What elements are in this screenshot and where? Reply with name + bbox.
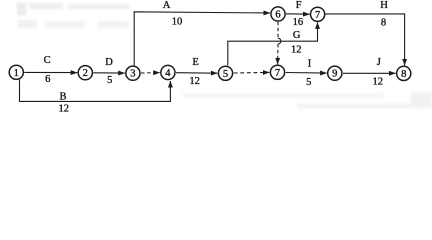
hop of dummy over G line — [278, 38, 281, 44]
svg-text:6: 6 — [45, 74, 50, 85]
wire activity F (6->7 top) — [286, 13, 310, 15]
node 9 — [328, 66, 342, 80]
wire dummy (3->4) dashed — [141, 72, 160, 74]
svg-text:2: 2 — [83, 68, 88, 79]
svg-text:7: 7 — [315, 10, 320, 21]
svg-text:4: 4 — [165, 68, 171, 79]
svg-text:9: 9 — [332, 69, 337, 80]
svg-text:H: H — [380, 0, 388, 11]
svg-text:12: 12 — [189, 76, 200, 87]
wire dummy (6->7 bottom) dashed lower part — [277, 44, 279, 64]
node 3 — [126, 66, 140, 80]
svg-text:F: F — [296, 0, 302, 11]
wire activity J (9->8) — [343, 72, 396, 74]
svg-text:G: G — [293, 30, 301, 41]
svg-text:D: D — [105, 57, 113, 68]
svg-text:C: C — [44, 55, 51, 66]
node 8 — [397, 66, 411, 80]
node 6 — [271, 7, 285, 21]
wire activity H (7 top ->8) — [325, 14, 404, 66]
wire activity D (2->3) — [93, 72, 125, 74]
node 7 (bottom) — [270, 65, 284, 79]
svg-text:12: 12 — [58, 104, 69, 115]
node 4 — [161, 65, 175, 79]
svg-text:J: J — [377, 57, 381, 68]
svg-text:10: 10 — [172, 17, 183, 28]
svg-text:7: 7 — [275, 68, 280, 79]
wire dummy (5->7 bottom) dashed — [234, 71, 270, 74]
wire activity G (5->7 top, with hop) — [228, 22, 318, 65]
svg-text:6: 6 — [275, 10, 280, 21]
svg-text:12: 12 — [291, 44, 302, 55]
wire activity B (1->4 via bottom) — [20, 80, 171, 102]
svg-text:3: 3 — [130, 69, 135, 80]
node 7 (top) — [311, 7, 325, 21]
node 2 — [78, 66, 92, 80]
svg-text:8: 8 — [401, 69, 406, 80]
svg-text:12: 12 — [372, 76, 383, 87]
wire activity A (3->6 via top) — [134, 12, 270, 66]
svg-text:8: 8 — [381, 17, 386, 28]
svg-text:5: 5 — [223, 69, 228, 80]
svg-text:5: 5 — [107, 75, 112, 86]
svg-text:A: A — [163, 0, 171, 11]
svg-text:1: 1 — [14, 68, 19, 79]
svg-text:E: E — [192, 57, 198, 68]
ghost bleed-through smears (top-left) — [17, 3, 129, 29]
svg-text:5: 5 — [306, 77, 311, 88]
wire activity I (7->9) — [286, 72, 327, 75]
svg-text:16: 16 — [293, 17, 304, 28]
ghost bleed-through smears (bottom) — [183, 93, 432, 109]
wire activity E (4->5) — [176, 72, 217, 75]
wire dummy (6->7 bottom) dashed upper part — [277, 22, 279, 38]
svg-text:I: I — [308, 59, 312, 70]
node 1 — [9, 65, 23, 79]
node 5 — [218, 66, 232, 80]
svg-text:B: B — [59, 91, 66, 102]
wire activity C (1->2) — [24, 71, 77, 73]
